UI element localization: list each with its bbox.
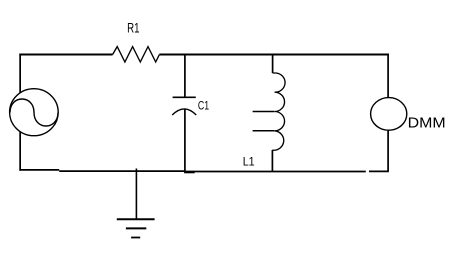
ground bar 3 (131, 237, 140, 239)
wire top rail right (resistor to right corner) (159, 54, 388, 56)
capacitor C1 curved plate (172, 109, 196, 115)
wire C1 branch bottom (184, 109, 186, 171)
wire bottom rail segment 2 (59, 170, 184, 172)
wire L1 branch bottom (271, 150, 273, 171)
svg-text:DMM: DMM (408, 115, 446, 132)
wire L1 branch top (272, 55, 274, 74)
wire top rail left (source to resistor) (19, 54, 112, 56)
wire right rail bottom lead (387, 130, 389, 171)
inductor L1 tap line upper (253, 111, 275, 113)
multimeter DMM (371, 98, 407, 131)
wire right rail top lead (387, 54, 389, 98)
wire bottom rail segment 1 (19, 169, 59, 171)
svg-text:L1: L1 (243, 155, 255, 169)
wire left rail bottom lead (19, 131, 21, 170)
ground bar 1 (117, 218, 155, 220)
wire ground stem (135, 169, 137, 220)
wire left rail top lead (19, 54, 21, 94)
wire bottom rail segment 2b (185, 171, 366, 173)
wire bottom rail segment 3 (369, 170, 389, 172)
inductor L1 coil (272, 73, 285, 150)
capacitor C1 top plate (173, 96, 196, 98)
inductor L1 tap line lower (253, 130, 275, 132)
ground bar 2 (126, 227, 146, 229)
resistor R1 (113, 47, 160, 62)
wire junction blob at C1 bottom (184, 171, 195, 173)
svg-text:C1: C1 (198, 98, 209, 112)
wire C1 branch top (184, 55, 186, 98)
svg-text:R1: R1 (127, 20, 140, 36)
AC source sine wave (10, 99, 58, 126)
AC source V1 (10, 89, 59, 136)
